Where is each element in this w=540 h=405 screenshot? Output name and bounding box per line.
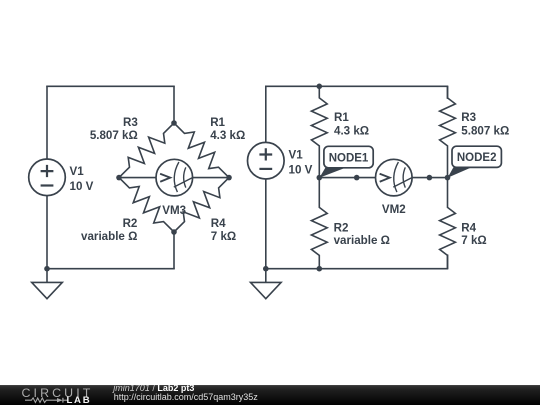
label R1 4.3 kOhm right [334,111,369,137]
resistor R2 left bridge lower-left arm [119,178,174,232]
node bridge right junction [226,175,232,181]
svg-text:R4: R4 [461,222,476,235]
ground left [32,268,63,298]
node right ground junction [263,266,269,272]
voltage source V1 left 10 V [29,159,66,196]
svg-text:7 kΩ: 7 kΩ [211,230,236,243]
svg-text:variable Ω: variable Ω [334,234,390,247]
node top rail junction [317,84,323,90]
node flag NODE1 [319,146,373,178]
resistor R1 left bridge upper-right arm [174,123,229,178]
node bridge bottom junction [171,229,177,235]
svg-text:10 V: 10 V [70,180,94,193]
wire right top rail [265,86,448,142]
node voltmeter VM2 right terminal [427,175,433,181]
svg-text:NODE2: NODE2 [457,152,497,164]
svg-text:R2: R2 [123,217,138,230]
svg-text:R2: R2 [334,221,349,234]
resistor R1 right [311,86,327,177]
svg-text:10 V: 10 V [289,164,313,177]
wire bridge horizontal through voltmeter VM3 [119,177,229,179]
svg-text:R3: R3 [123,116,138,129]
node bridge left junction [116,175,122,181]
wire left top rail from V1 to bridge top node [46,86,175,159]
svg-text:4.3 kΩ: 4.3 kΩ [210,129,245,142]
svg-text:4.3 kΩ: 4.3 kΩ [334,125,369,138]
wire right bottom rail [265,179,448,269]
label V1 right [289,149,313,177]
svg-text:variable Ω: variable Ω [81,230,137,243]
label R1 4.3 kOhm left [210,116,245,142]
svg-text:R3: R3 [461,111,476,124]
svg-text:VM2: VM2 [382,203,406,216]
ground right [251,268,282,298]
node left ground junction [44,266,50,272]
svg-text:5.807 kΩ: 5.807 kΩ [461,125,509,138]
resistor R2 right [311,178,327,269]
svg-text:R1: R1 [210,116,225,129]
label R2 variable right [334,221,390,247]
label R4 7 kOhm left [211,217,236,243]
resistor R4 right [440,178,456,269]
svg-text:5.807 kΩ: 5.807 kΩ [90,129,138,142]
svg-text:R4: R4 [211,217,226,230]
wire left bottom rail from bridge bottom to ground junction [46,196,175,269]
label R2 variable left [81,217,137,243]
voltmeter VM3 [156,159,193,196]
svg-text:7 kΩ: 7 kΩ [461,234,486,247]
label R4 7 kOhm right [461,222,486,248]
label V1 left [70,165,94,193]
svg-text:V1: V1 [70,165,85,178]
wire voltmeter row NODE1 to NODE2 [319,177,447,179]
resistor R3 left bridge upper-left arm [119,123,174,178]
node bridge top junction [171,120,177,126]
node NODE2 junction [445,175,451,181]
voltage source V1 right 10 V [247,142,284,179]
node flag NODE2 [448,146,502,178]
resistor R3 right [440,86,456,177]
voltmeter VM2 [376,159,413,196]
node bottom rail junction [317,266,323,272]
label VM3 [162,204,186,217]
label VM2 [382,203,406,216]
node voltmeter VM2 left terminal [354,175,360,181]
svg-text:V1: V1 [289,149,304,162]
node NODE1 junction [317,175,323,181]
svg-text:VM3: VM3 [162,204,186,217]
label R3 5.807 kOhm right [461,111,509,137]
svg-text:R1: R1 [334,111,349,124]
resistor R4 left bridge lower-right arm [174,178,229,232]
svg-text:NODE1: NODE1 [329,152,369,164]
label R3 5.807 kOhm left [90,116,139,142]
